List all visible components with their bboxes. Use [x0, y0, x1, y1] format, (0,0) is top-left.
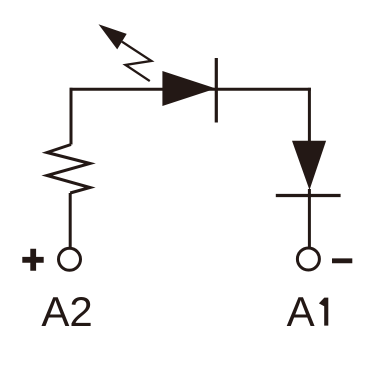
plus sign — [22, 249, 43, 271]
terminal A2 circle — [59, 248, 81, 270]
label A1 digit 1 (custom glyph, no foot serif) — [319, 298, 328, 326]
wire resistor to A2 terminal — [69, 193, 72, 248]
svg-text:A: A — [287, 288, 315, 335]
wire right vertical (top) — [308, 88, 311, 142]
LED light-emission arrowhead — [99, 24, 127, 49]
LED D1 cathode bar — [215, 58, 218, 123]
wire left vertical rail — [70, 88, 73, 145]
diode D2 triangle (cathode down) — [292, 141, 326, 190]
svg-text:A2: A2 — [41, 288, 92, 335]
wire diode to A1 terminal — [308, 189, 311, 248]
resistor R (zigzag) — [47, 145, 90, 194]
terminal A1 circle — [297, 248, 319, 270]
LED D1 triangle (anode) — [162, 71, 215, 106]
diode D2 cathode bar — [276, 194, 341, 197]
wire top horizontal — [70, 88, 311, 91]
LED light-emission arrow shaft (zigzag) — [122, 42, 151, 81]
minus sign — [332, 258, 352, 263]
